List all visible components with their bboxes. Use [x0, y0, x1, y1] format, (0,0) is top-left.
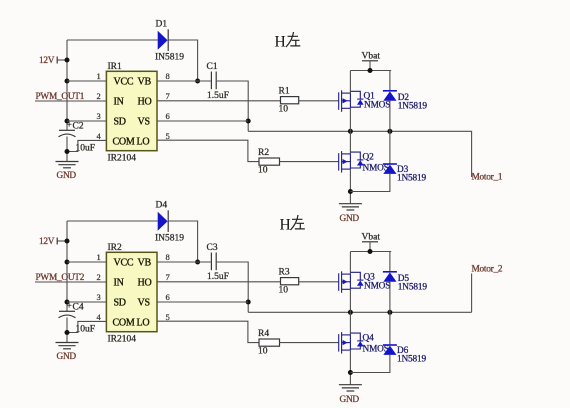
- wire R3 to Q3 gate: [299, 281, 339, 283]
- svg-text:GND: GND: [57, 352, 77, 362]
- svg-text:3: 3: [97, 111, 101, 121]
- svg-text:12V: 12V: [39, 56, 55, 66]
- wire Q3 source: [349, 289, 351, 312]
- wire D2 cathode: [389, 71, 391, 91]
- wire D6 cathode: [389, 312, 391, 345]
- svg-text:6: 6: [166, 111, 170, 121]
- svg-text:IR2: IR2: [108, 243, 123, 253]
- svg-text:VS: VS: [138, 116, 150, 127]
- wire pin8 VB to C1: [157, 80, 211, 82]
- svg-text:5: 5: [166, 131, 170, 141]
- svg-text:GND: GND: [340, 214, 360, 224]
- diode D4: [155, 201, 184, 244]
- node VB junction: [195, 79, 200, 84]
- svg-text:IR2104: IR2104: [108, 335, 137, 345]
- svg-text:R3: R3: [279, 268, 290, 278]
- svg-text:HO: HO: [138, 96, 152, 107]
- title H-left (bottom): [280, 215, 305, 234]
- svg-text:HO: HO: [138, 277, 152, 288]
- transistor Q3: [339, 271, 391, 293]
- wire Q3 drain: [349, 252, 351, 275]
- svg-text:R4: R4: [258, 329, 269, 339]
- svg-text:COM: COM: [113, 137, 135, 148]
- svg-text:Q4: Q4: [363, 334, 375, 344]
- wire pin4 COM: [67, 140, 106, 151]
- wire pin5 LO to R4: [157, 321, 259, 342]
- svg-text:2: 2: [97, 91, 101, 101]
- node phase D2 anode: [387, 129, 392, 134]
- wire D3 anode: [350, 174, 390, 192]
- node Q4 source / D6: [348, 370, 353, 375]
- wire pin7 HO to R1: [157, 100, 281, 102]
- svg-text:R2: R2: [258, 148, 269, 158]
- diode D5: [383, 272, 427, 293]
- capacitor C4 polarized: [59, 302, 96, 335]
- svg-text:NMOS: NMOS: [364, 101, 390, 111]
- svg-text:VCC: VCC: [114, 77, 134, 88]
- wire Vbat rail: [350, 70, 391, 72]
- title H-left (top): [275, 32, 301, 51]
- node 12V port junction: [65, 58, 70, 63]
- svg-text:PWM_OUT1: PWM_OUT1: [36, 92, 85, 102]
- resistor R4: [258, 329, 280, 357]
- wire Q1 drain: [349, 71, 351, 94]
- svg-text:1.5uF: 1.5uF: [207, 272, 229, 282]
- node VS junction (2): [246, 300, 251, 305]
- svg-text:VCC: VCC: [114, 258, 134, 269]
- svg-text:10uF: 10uF: [76, 144, 96, 154]
- power Vbat (2): [362, 233, 381, 252]
- svg-text:COM: COM: [113, 318, 135, 329]
- svg-text:10uF: 10uF: [76, 325, 96, 335]
- ground GND left: [56, 162, 79, 182]
- svg-text:VB: VB: [138, 77, 152, 88]
- wire 12V rail vertical: [66, 40, 68, 130]
- svg-text:VS: VS: [138, 297, 150, 308]
- wire Q2 source: [349, 169, 351, 203]
- svg-text:IN5819: IN5819: [155, 53, 184, 63]
- wire D2 anode: [389, 101, 391, 132]
- wire pin6 VS (2): [157, 301, 248, 303]
- wire pin3 SD: [67, 120, 106, 122]
- svg-text:8: 8: [166, 71, 170, 81]
- node Vbat junction: [368, 68, 373, 73]
- svg-text:H: H: [275, 34, 286, 51]
- svg-text:IR1: IR1: [108, 62, 123, 72]
- node phase D5 anode: [387, 310, 392, 315]
- svg-text:Vbat: Vbat: [362, 233, 381, 243]
- svg-text:3: 3: [97, 292, 101, 302]
- ground GND below Q2: [339, 204, 362, 224]
- wire 12V rail vertical (2): [66, 221, 68, 311]
- wire pin2 IN / net PWM_OUT1: [35, 100, 106, 102]
- wire Q4 drain: [349, 312, 351, 335]
- wire Q4 source: [349, 350, 351, 384]
- svg-text:C1: C1: [207, 62, 218, 72]
- svg-text:D1: D1: [156, 20, 168, 30]
- diode D2: [383, 91, 427, 112]
- svg-text:10: 10: [258, 166, 268, 176]
- svg-text:1: 1: [97, 71, 101, 81]
- node SD branch (2): [65, 300, 70, 305]
- node phase source Q1: [348, 129, 353, 134]
- svg-text:1N5819: 1N5819: [398, 283, 428, 293]
- wire C2 to GND: [66, 137, 68, 162]
- wire phase rail to motor: [248, 131, 471, 177]
- svg-text:10: 10: [258, 347, 268, 357]
- wire C1 to VS corner: [217, 81, 248, 131]
- ground GND below Q4: [339, 385, 362, 405]
- svg-text:VB: VB: [138, 258, 152, 269]
- wire D3 cathode: [389, 131, 391, 164]
- svg-text:SD: SD: [114, 297, 126, 308]
- wire pin2 IN / net PWM_OUT2: [35, 281, 106, 283]
- wire R4 to Q4 gate: [280, 342, 339, 344]
- svg-text:6: 6: [166, 292, 170, 302]
- svg-text:D4: D4: [156, 201, 168, 211]
- node VS junction: [246, 119, 251, 124]
- svg-text:4: 4: [97, 312, 102, 322]
- wire Q1 source: [349, 108, 351, 131]
- node Q2 source / D3: [348, 189, 353, 194]
- IC U: IR2104 IR1: [106, 62, 157, 164]
- node phase source Q3: [348, 310, 353, 315]
- capacitor C2 polarized: [59, 121, 96, 154]
- svg-text:7: 7: [166, 91, 170, 101]
- svg-text:C2: C2: [73, 122, 84, 132]
- power port 12V: [39, 56, 67, 66]
- svg-text:NMOS: NMOS: [364, 282, 390, 292]
- svg-text:LO: LO: [137, 318, 150, 329]
- svg-text:1: 1: [97, 252, 101, 262]
- svg-text:IN: IN: [114, 277, 124, 288]
- svg-text:GND: GND: [57, 171, 77, 181]
- capacitor C3: [207, 243, 229, 282]
- wire C3 to VS corner: [217, 262, 248, 312]
- svg-text:Q2: Q2: [363, 153, 375, 163]
- svg-text:IN: IN: [114, 96, 124, 107]
- wire pin3 SD (2): [67, 301, 106, 303]
- wire D5 anode: [389, 282, 391, 313]
- svg-text:H: H: [280, 217, 291, 234]
- wire pin6 VS: [157, 120, 248, 122]
- svg-text:7: 7: [166, 272, 170, 282]
- power Vbat: [362, 52, 381, 71]
- svg-text:1N5819: 1N5819: [398, 102, 428, 112]
- svg-text:1N5819: 1N5819: [397, 174, 427, 184]
- node SD branch: [65, 119, 70, 124]
- node VCC branch (2): [65, 260, 70, 265]
- resistor R3: [279, 268, 299, 296]
- svg-text:LO: LO: [137, 137, 150, 148]
- svg-text:C3: C3: [207, 243, 218, 253]
- wire 12V to D1 anode: [67, 39, 158, 41]
- node COM/C2 junction: [65, 149, 70, 154]
- IC U: IR2104 IR2: [106, 243, 157, 345]
- wire D4 cathode to VB node: [168, 221, 197, 262]
- wire pin7 HO to R3: [157, 281, 281, 283]
- wire D1 cathode to VB node: [168, 40, 197, 81]
- wire Vbat rail (2): [350, 251, 391, 253]
- diode D1: [155, 20, 184, 63]
- svg-text:8: 8: [166, 252, 170, 262]
- transistor Q2: [339, 151, 389, 173]
- node 12V port junction (2): [65, 239, 70, 244]
- svg-text:IR2104: IR2104: [108, 154, 137, 164]
- power port 12V (2): [39, 237, 67, 247]
- node COM/C4 junction: [65, 330, 70, 335]
- svg-text:IN5819: IN5819: [155, 234, 184, 244]
- transistor Q1: [339, 90, 391, 112]
- svg-text:10: 10: [279, 105, 289, 115]
- wire R1 to Q1 gate: [299, 100, 339, 102]
- wire pin1 VCC (2): [67, 261, 106, 263]
- svg-text:12V: 12V: [39, 237, 55, 247]
- wire 12V to D4 anode: [67, 220, 158, 222]
- svg-text:1N5819: 1N5819: [397, 355, 427, 365]
- svg-text:1.5uF: 1.5uF: [207, 91, 229, 101]
- svg-text:5: 5: [166, 312, 170, 322]
- capacitor C1: [207, 62, 229, 101]
- wire Q2 drain: [349, 131, 351, 154]
- node VCC branch: [65, 79, 70, 84]
- svg-text:Vbat: Vbat: [362, 52, 381, 62]
- svg-text:PWM_OUT2: PWM_OUT2: [36, 273, 85, 283]
- wire R2 to Q2 gate: [280, 161, 339, 163]
- wire D6 anode: [350, 355, 390, 373]
- node VB junction (2): [195, 260, 200, 265]
- diode D3: [383, 164, 427, 184]
- svg-text:2: 2: [97, 272, 101, 282]
- wire C4 to GND: [66, 318, 68, 343]
- wire pin4 COM (2): [67, 321, 106, 332]
- wire phase rail (2): [248, 311, 471, 313]
- svg-text:+: +: [67, 121, 72, 131]
- svg-text:4: 4: [97, 131, 102, 141]
- wire motor_2 stub: [471, 274, 473, 313]
- svg-text:R1: R1: [279, 87, 290, 97]
- ground GND left (2): [56, 343, 79, 363]
- transistor Q4: [339, 332, 389, 354]
- svg-text:+: +: [67, 302, 72, 312]
- wire D5 cathode: [389, 252, 391, 272]
- wire pin1 VCC: [67, 80, 106, 82]
- node Vbat junction (2): [368, 249, 373, 254]
- svg-text:SD: SD: [114, 116, 126, 127]
- diode D6: [383, 345, 427, 365]
- wire pin5 LO to R2: [157, 140, 259, 161]
- svg-text:Motor_1: Motor_1: [472, 173, 503, 183]
- wire pin8 VB to C3: [157, 261, 211, 263]
- svg-text:GND: GND: [340, 395, 360, 405]
- resistor R2: [258, 148, 280, 176]
- svg-text:Motor_2: Motor_2: [472, 265, 503, 275]
- svg-text:10: 10: [279, 286, 289, 296]
- svg-text:C4: C4: [73, 303, 84, 313]
- resistor R1: [279, 87, 299, 115]
